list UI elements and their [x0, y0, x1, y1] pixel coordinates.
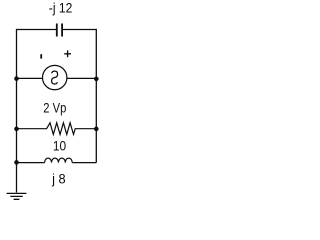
- svg-text:j 8: j 8: [51, 171, 66, 187]
- svg-text:2 Vp: 2 Vp: [43, 99, 66, 115]
- svg-text:-j 12: -j 12: [49, 0, 73, 15]
- svg-text:10: 10: [53, 137, 66, 153]
